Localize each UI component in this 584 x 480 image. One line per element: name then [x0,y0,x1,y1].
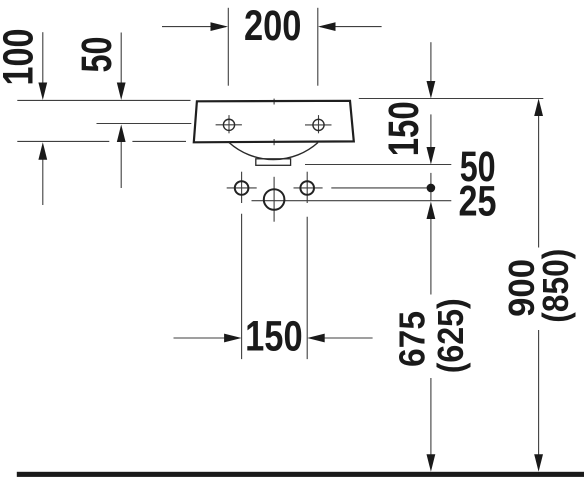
wire L7 middle-hole centerline y=200.7 [252,200,452,202]
faucet hole left circle [235,181,249,195]
basin bowl arc [229,143,318,160]
arrowhead 100 up [38,142,47,160]
svg-text:150: 150 [245,313,303,360]
wire 50L-dim bottom arrow shaft [120,139,122,188]
tap hole crosshair circle left [223,119,234,130]
wire L1 left top reference line y=100.4 [17,99,190,101]
tap hole crosshair circle right [313,119,324,130]
wire L4 right top reference line y=98.5 [359,98,544,100]
svg-text:200: 200 [244,3,302,50]
wire 675-dim upper shaft [430,217,432,295]
wire basin center tick top [273,99,275,105]
wire 200 extension line left x=228.3 [227,8,229,86]
arrowhead 150B left (points right) [224,334,242,343]
wire 150-dim bottom right tail [310,337,373,339]
arrowhead 150R bottom down [427,147,436,165]
wire 100-dim bottom arrow shaft [42,157,44,205]
wire L2 left 50-bottom line y=123.5 [97,123,192,125]
svg-text:150: 150 [381,101,428,156]
wire L6c to dot [331,187,431,189]
arrowhead 100 down [38,83,47,101]
wire 100-dim top arrow shaft [42,32,44,85]
wire tap crosshair left horizontal [216,124,242,126]
svg-text:(850): (850) [535,249,576,323]
wire 900-dim lower shaft [538,330,540,457]
wire L6b [294,187,323,189]
arrowhead 900 down at floor [534,454,543,472]
dimension chain dot [427,184,436,193]
arrowhead 200 left (points right) [211,22,229,31]
wire basin center tick bottom [273,139,275,145]
drain rectangle [256,159,291,166]
svg-text:50: 50 [74,37,121,73]
wire 200 extension line right x=317.8 [317,8,319,86]
arrowhead 675 down at floor [427,454,436,472]
wire left hole centerline upper x=241.6 [241,172,243,203]
wire 150R-dim bottom arrow shaft [430,114,432,149]
svg-text:675: 675 [391,311,432,367]
wire right hole centerline upper x=307.2 [306,172,308,203]
wire 200-dim left tail [162,26,226,28]
svg-text:100: 100 [0,29,43,86]
arrowhead 200 right (points left) [318,22,336,31]
wire 200-dim right tail [320,26,382,28]
wire right hole centerline lower [306,217,308,359]
wire 150-dim bottom left tail [174,337,240,339]
floor line [17,472,584,477]
arrowhead 25 up [427,202,436,220]
basin outline (trapezoid front view) [194,101,354,143]
wire 150R-dim top arrow shaft [430,42,432,83]
wire middle hole centerline x=274.1 [273,177,275,222]
wire chain through dot x=430.9 [430,173,432,200]
faucet hole right circle [300,181,314,195]
wire 50L-dim top arrow shaft [120,33,122,85]
wire 900-dim upper shaft [538,114,540,248]
svg-text:(625): (625) [430,298,471,373]
wire tap crosshair left vertical [228,115,230,133]
svg-text:25: 25 [459,179,497,226]
arrowhead 50L down [117,83,126,101]
wire L5 right 50-top line y=164.5 [305,164,451,166]
arrowhead 150R top down [427,81,436,99]
wire L3 left 100-bottom line y=141.4 [17,140,109,142]
arrowhead 50L up [117,125,126,143]
wire left hole centerline lower [241,214,243,359]
faucet hole middle circle [264,189,285,210]
arrowhead 150B right (points left) [307,334,325,343]
arrowhead 900 up [534,99,543,117]
wire tap crosshair right vertical [318,115,320,133]
wire L3b [132,140,186,142]
wire tap crosshair right horizontal [305,124,332,126]
wire 675-dim lower shaft [430,378,432,457]
wire L6 small-holes centerline y=187.9 [227,187,257,189]
